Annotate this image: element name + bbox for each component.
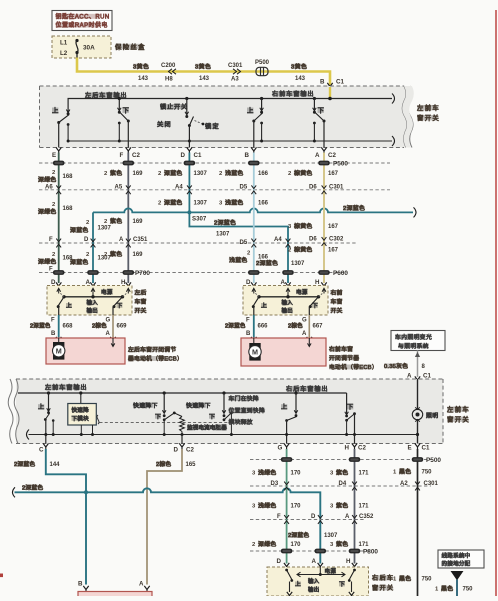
svg-text:E: E <box>408 445 412 452</box>
harness dashed row y519.5 <box>250 519 366 521</box>
svg-text:C2: C2 <box>358 445 366 452</box>
svg-text:器电动机（带ECB）: 器电动机（带ECB） <box>128 355 183 363</box>
svg-text:H: H <box>345 445 350 452</box>
svg-text:紫色: 紫色 <box>336 540 348 548</box>
pin D3 chevron <box>271 481 290 490</box>
svg-text:1307: 1307 <box>194 201 208 207</box>
svg-text:模块释放: 模块释放 <box>229 418 253 426</box>
pin F chevron at C351 row <box>49 237 61 247</box>
label express down #1 and DOWN switch <box>133 391 176 436</box>
pin D label into left-rear switch <box>51 279 61 289</box>
power rail and pin arrows inside right-front switch <box>252 288 326 299</box>
connector capsule on violet wire y163 <box>123 161 135 166</box>
svg-text:电动机（带ECB）: 电动机（带ECB） <box>329 363 378 371</box>
svg-text:B: B <box>320 79 325 86</box>
svg-text:D: D <box>311 514 316 520</box>
svg-text:下: 下 <box>347 404 355 411</box>
svg-text:P500: P500 <box>426 457 441 464</box>
svg-text:黑色: 黑色 <box>399 468 411 476</box>
left front motor box (pink, cut off) <box>78 592 152 600</box>
svg-text:车窗: 车窗 <box>331 298 343 306</box>
left front window master switch (upper block, dashed, torn right edge) <box>40 86 414 148</box>
label: left rear window output <box>85 93 120 98</box>
svg-text:关闭: 关闭 <box>157 121 172 129</box>
return bus inside master switch <box>68 136 394 146</box>
connector capsule on green wire y272.5 <box>53 270 65 275</box>
svg-text:A6: A6 <box>45 185 53 191</box>
svg-text:D: D <box>51 279 56 286</box>
red page edge line right <box>495 10 497 596</box>
svg-text:30A: 30A <box>83 45 95 52</box>
svg-text:棕黄色: 棕黄色 <box>294 169 313 177</box>
connector capsule on teal x93 y272.5 <box>87 270 99 275</box>
svg-text:169: 169 <box>133 171 144 177</box>
power bus inside lower block <box>18 392 347 394</box>
connector capsule on teal y551 <box>315 549 327 554</box>
svg-text:C301: C301 <box>424 481 439 487</box>
label left rear window regulator motor ECB <box>128 346 183 363</box>
connector capsule on light blue y272.5 <box>248 270 260 275</box>
ground distribution box <box>438 550 484 568</box>
svg-text:黑色: 黑色 <box>399 575 411 583</box>
svg-text:167: 167 <box>328 248 339 254</box>
svg-text:深绿色: 深绿色 <box>38 176 57 184</box>
svg-text:下: 下 <box>123 107 131 115</box>
label 2 dark-blue 1307 bottom <box>288 531 338 539</box>
pin A into right-rear switch <box>312 558 324 569</box>
svg-text:右后车: 右后车 <box>372 574 394 582</box>
svg-text:169: 169 <box>133 252 144 258</box>
connector capsule on green y551 <box>281 549 293 554</box>
lock switch with labels <box>157 97 220 148</box>
svg-text:左前车: 左前车 <box>417 103 440 112</box>
internal return line y434.5 with left break <box>27 430 418 440</box>
pin D5 chevron at C302 row <box>240 239 257 248</box>
svg-text:锁止开关: 锁止开关 <box>160 103 188 111</box>
pin H label into right-front switch <box>315 279 327 289</box>
switch UP (right front) with label <box>247 97 263 148</box>
svg-text:170: 170 <box>291 504 302 510</box>
svg-text:位置直到快降: 位置直到快降 <box>229 406 266 414</box>
svg-text:左后: 左后 <box>135 289 147 297</box>
label: left front window output <box>45 385 80 390</box>
switch UP (right rear) to pin G <box>281 391 298 443</box>
label: left front window switch (right of upper block) <box>417 103 440 122</box>
pin F and wire 2 dark-blue 668 to motor <box>30 315 73 343</box>
svg-text:紫色: 紫色 <box>336 502 348 510</box>
svg-text:下: 下 <box>339 581 346 588</box>
svg-text:D5: D5 <box>240 240 248 246</box>
svg-text:下: 下 <box>209 413 216 420</box>
svg-text:P600: P600 <box>333 270 348 277</box>
svg-text:750: 750 <box>463 587 474 593</box>
pin A2 chevron at C301 <box>400 481 439 490</box>
svg-text:A4: A4 <box>175 185 183 191</box>
label right rear window switch <box>372 574 394 592</box>
svg-text:D: D <box>277 558 282 565</box>
svg-text:A5: A5 <box>115 185 123 191</box>
pin H into right-rear switch <box>346 558 357 569</box>
label 3 violet 171 (mid) <box>330 502 369 510</box>
label right front window switch (3 lines) <box>331 289 343 315</box>
connector capsule P800 y551 <box>349 549 361 554</box>
pin D6 chevron at C302 <box>309 237 344 246</box>
svg-text:168: 168 <box>63 174 74 180</box>
svg-text:左后车窗开闭调节: 左后车窗开闭调节 <box>128 346 176 354</box>
wire: brown-yellow 167 (pin A C2 down to P600) <box>323 153 325 284</box>
pin D chevron on teal x93 <box>84 237 95 247</box>
svg-text:170: 170 <box>291 542 302 548</box>
label 2 brown-yellow 167 (lower) <box>288 246 339 254</box>
svg-text:666: 666 <box>258 324 269 330</box>
label 2 dark-blue 1307 (second) <box>158 199 208 207</box>
svg-text:A: A <box>106 331 111 337</box>
up/down contacts inside left-rear switch <box>57 297 124 315</box>
svg-text:A3: A3 <box>231 76 239 82</box>
label left rear window switch (3 lines) <box>135 289 147 315</box>
svg-text:168: 168 <box>63 206 74 212</box>
fuse box (dashed) with fuse L1/L2 30A <box>52 36 111 58</box>
svg-text:C301: C301 <box>228 63 243 69</box>
svg-text:S307: S307 <box>192 216 207 223</box>
svg-text:668: 668 <box>63 324 74 330</box>
svg-text:3黄色: 3黄色 <box>291 62 307 70</box>
svg-text:紫色: 紫色 <box>110 169 122 177</box>
connector capsule on green wire y163 <box>53 161 65 166</box>
svg-text:669: 669 <box>117 324 128 330</box>
svg-text:紫色: 紫色 <box>110 217 122 225</box>
svg-text:快速降下: 快速降下 <box>133 401 158 409</box>
svg-text:143: 143 <box>138 76 149 82</box>
wire label 3 yellow 143 (left) <box>133 62 149 82</box>
label 1 black 750 (lower) <box>393 575 432 583</box>
svg-text:B: B <box>78 581 83 588</box>
svg-text:深绿色: 深绿色 <box>38 208 57 216</box>
yellow feed junction on bus <box>328 87 332 100</box>
wire: light green 170 pin G down to right-rear switch <box>286 449 288 564</box>
svg-text:D6: D6 <box>309 237 317 243</box>
svg-text:A4: A4 <box>274 237 282 243</box>
pin A C1 into lower master switch block <box>407 373 431 383</box>
svg-text:监视电流电阻器: 监视电流电阻器 <box>187 423 227 431</box>
pin C <box>39 443 49 453</box>
express-down module box <box>68 391 99 436</box>
pin D C2 (express down) <box>174 443 195 453</box>
pin D chevron on teal x320.3 <box>311 514 323 524</box>
up/down contacts inside right-front switch <box>252 297 319 315</box>
svg-text:A: A <box>345 514 350 520</box>
svg-text:1307: 1307 <box>216 232 230 238</box>
pin A chevron at connector C352 <box>345 514 374 524</box>
pin B of left front motor <box>78 581 89 593</box>
pin D5 chevron <box>240 185 257 195</box>
svg-text:电源: 电源 <box>325 567 337 575</box>
svg-text:F: F <box>246 318 250 324</box>
up/down contacts inside right-rear switch <box>285 569 356 599</box>
svg-text:D: D <box>246 279 251 286</box>
svg-text:紫色: 紫色 <box>336 469 348 477</box>
wire: yellow feed from fuse to switch (3 YE 143) <box>77 53 330 88</box>
label 2 brown-yellow 167 (upper) <box>288 169 339 177</box>
svg-text:深蓝色: 深蓝色 <box>164 199 183 207</box>
pin G <box>278 443 290 451</box>
label 2 dark-blue 1307 on lower branch <box>214 218 236 237</box>
svg-text:0.35灰色: 0.35灰色 <box>384 362 408 370</box>
svg-text:1307: 1307 <box>291 261 305 267</box>
svg-text:右后车窗输出: 右后车窗输出 <box>286 385 329 393</box>
wire: dark green 168 (pin E to left-rear switch pin D) <box>58 153 60 284</box>
svg-text:钥匙在ACC、RUN: 钥匙在ACC、RUN <box>56 13 110 21</box>
svg-text:浅蓝色: 浅蓝色 <box>229 256 248 264</box>
wire: violet 169 (pin F C2 down to P700) <box>127 153 129 284</box>
svg-text:143: 143 <box>295 76 306 82</box>
svg-text:L2: L2 <box>60 50 68 57</box>
svg-text:L1: L1 <box>60 40 68 47</box>
left rear window motor box (pink) <box>46 338 125 364</box>
right front window switch box (dashed cream) <box>243 286 328 316</box>
wire 0.35 gray 8 from lighting box <box>384 351 426 378</box>
svg-text:B: B <box>51 331 56 337</box>
label right front window regulator motor ECB <box>329 345 378 371</box>
svg-text:与照明系统: 与照明系统 <box>398 342 429 350</box>
svg-text:C352: C352 <box>359 514 374 520</box>
label 2 dark-green 168 (lower) <box>38 252 73 266</box>
svg-text:F: F <box>49 237 53 243</box>
svg-text:171: 171 <box>359 504 370 510</box>
left rear window switch box (dashed cream) <box>47 286 132 316</box>
connector capsule P500 y163 <box>318 161 330 166</box>
svg-text:输入: 输入 <box>308 577 320 585</box>
svg-text:F: F <box>51 318 55 324</box>
svg-text:输入: 输入 <box>282 299 294 307</box>
label 2 light-blue 166 (lower) <box>229 251 269 265</box>
pin D C1 <box>181 147 202 159</box>
pin E C1 (illumination) <box>408 443 430 451</box>
pin F chevron at C352 row <box>277 514 289 524</box>
svg-text:H: H <box>346 558 351 565</box>
svg-text:上: 上 <box>295 580 302 588</box>
label 3 light-green 170 (upper) <box>252 469 301 477</box>
svg-text:下模块: 下模块 <box>72 415 90 423</box>
svg-text:D4: D4 <box>339 481 347 487</box>
pin A C2 <box>315 147 336 159</box>
svg-text:167: 167 <box>328 224 339 230</box>
svg-text:2深蓝色: 2深蓝色 <box>288 531 309 539</box>
switch UP (left front) to pin C <box>38 391 55 443</box>
svg-text:深蓝色: 深蓝色 <box>70 226 89 234</box>
pin A of left front motor <box>139 581 150 593</box>
red page edge mark bottom-left <box>0 574 3 578</box>
svg-text:750: 750 <box>422 577 433 583</box>
svg-text:棕黄色: 棕黄色 <box>294 246 313 254</box>
label 2 dark-green 168 (upper) <box>38 170 73 184</box>
svg-text:171: 171 <box>359 471 370 477</box>
wire: dark blue 1307 branch down at x93 <box>92 212 94 283</box>
svg-text:照明: 照明 <box>426 413 438 420</box>
label 2 dark-green 170 (lower) <box>252 540 301 548</box>
pin D6 chevron at C301 <box>309 185 344 195</box>
monitor current resistor <box>174 413 227 444</box>
label 3 light-blue 166 (second) <box>219 199 269 207</box>
svg-text:C1: C1 <box>422 445 430 452</box>
switch DOWN (left rear) with label <box>118 97 131 148</box>
svg-text:右前车窗: 右前车窗 <box>329 345 353 353</box>
wire: dark blue lower branch S307 to x288 <box>189 212 288 283</box>
pin E <box>52 147 61 159</box>
harness dashed row y486 <box>250 485 431 487</box>
wire: dark blue trunk horizontal y212.4 with S307 <box>93 207 416 217</box>
svg-text:G: G <box>278 445 283 452</box>
svg-text:A: A <box>139 581 144 588</box>
svg-text:2深蓝色: 2深蓝色 <box>225 322 246 330</box>
pin A4 chevron <box>175 185 192 195</box>
svg-text:D3: D3 <box>271 481 279 487</box>
svg-text:上: 上 <box>247 106 255 115</box>
svg-text:3黄色: 3黄色 <box>195 62 211 70</box>
svg-text:A2: A2 <box>400 481 408 487</box>
pin D into right-rear switch <box>277 558 290 569</box>
note box: key in ACC/RUN or RAP power <box>52 11 112 31</box>
label 3 violet 171 (lower) <box>330 540 369 548</box>
svg-text:C351: C351 <box>133 237 148 243</box>
svg-text:A: A <box>407 373 412 380</box>
label 2 dark-green 168 (mid) <box>38 202 73 216</box>
svg-text:A: A <box>315 152 320 159</box>
svg-text:左前车: 左前车 <box>447 405 470 414</box>
ground feed triangle and wire 1 black 750 <box>435 572 473 597</box>
label express down #2 and DOWN switch <box>186 391 233 436</box>
pin F and wire 2 dark-blue 666 to motor <box>225 315 268 343</box>
pin B <box>245 147 257 159</box>
label 2 dark-blue 1307 near P600 row <box>256 259 305 267</box>
power rail and entry arrows inside right-rear switch <box>297 567 345 577</box>
junction S307 <box>187 210 206 222</box>
svg-text:快速降: 快速降 <box>72 406 90 414</box>
svg-text:输出: 输出 <box>308 586 319 594</box>
svg-text:3黄色: 3黄色 <box>133 62 149 70</box>
svg-text:C301: C301 <box>329 185 344 191</box>
svg-text:M: M <box>56 347 62 356</box>
pin A label into left-rear switch <box>86 279 96 289</box>
pin G and wire 2 brown 669 to motor <box>92 315 127 343</box>
svg-text:F: F <box>120 152 124 159</box>
interior lighting dimming system box <box>391 331 445 351</box>
svg-text:窗开关: 窗开关 <box>417 113 440 122</box>
svg-text:右前车窗输出: 右前车窗输出 <box>272 90 315 98</box>
svg-text:D: D <box>174 447 179 454</box>
svg-text:165: 165 <box>186 462 197 468</box>
switch DOWN (right front) with label <box>313 97 326 148</box>
connector C301 A3 marks <box>228 63 243 82</box>
label 2 violet 169 (second) <box>104 217 143 225</box>
svg-text:D: D <box>181 152 186 159</box>
svg-text:上: 上 <box>38 403 46 411</box>
svg-text:下: 下 <box>117 303 124 310</box>
svg-text:F: F <box>49 267 53 273</box>
svg-text:输出: 输出 <box>87 307 98 315</box>
svg-text:C2: C2 <box>132 152 140 159</box>
pin A5 chevron <box>115 185 131 195</box>
harness dashed row y272.5 <box>39 272 347 274</box>
illumination lamp in switch <box>412 379 438 444</box>
svg-text:2深蓝色: 2深蓝色 <box>30 322 51 330</box>
wire: dark blue trunk y492.3 to right rear switch <box>13 484 321 564</box>
wire: dark blue 144 pin C to left-front motor <box>14 449 86 585</box>
power bus inside master switch <box>68 94 394 113</box>
connector C200 H8 marks <box>161 63 176 82</box>
svg-text:D6: D6 <box>309 185 317 191</box>
connector capsule P500 on black y459.5 <box>412 457 424 462</box>
svg-text:电源: 电源 <box>101 288 113 296</box>
svg-text:浅绿色: 浅绿色 <box>258 502 277 510</box>
svg-text:166: 166 <box>258 201 269 207</box>
svg-text:黑色: 黑色 <box>441 585 453 593</box>
pin A label into right-front switch <box>281 279 291 289</box>
svg-text:750: 750 <box>422 470 433 476</box>
svg-text:A: A <box>281 279 286 286</box>
svg-text:输出: 输出 <box>282 307 293 315</box>
label 2 light-blue 166 (upper) <box>219 169 269 177</box>
connector capsule on light blue y163 <box>248 161 260 166</box>
pin G and wire 2 brown 667 to motor <box>288 315 323 343</box>
pin B C1 into master switch <box>320 79 344 90</box>
svg-text:窗开关: 窗开关 <box>372 584 394 592</box>
svg-text:D: D <box>84 237 89 243</box>
label 1 black 750 (upper) <box>393 468 432 476</box>
svg-text:P500: P500 <box>255 60 270 66</box>
svg-text:深绿色: 深绿色 <box>38 258 57 266</box>
svg-text:输入: 输入 <box>87 299 99 307</box>
svg-text:窗开关: 窗开关 <box>447 415 470 424</box>
pin A4 chevron on x288 branch <box>274 237 290 247</box>
svg-text:车内照明变光: 车内照明变光 <box>395 333 432 341</box>
svg-text:电源: 电源 <box>296 288 308 296</box>
svg-text:C302: C302 <box>329 237 344 243</box>
svg-text:浅蓝色: 浅蓝色 <box>225 169 244 177</box>
label 2 dark-blue on trunk <box>343 205 362 210</box>
svg-text:M: M <box>252 348 258 357</box>
svg-text:浅蓝色: 浅蓝色 <box>225 199 244 207</box>
wire: light blue 166 (pin B down) <box>253 153 255 284</box>
svg-text:深蓝色: 深蓝色 <box>164 169 183 177</box>
svg-text:C200: C200 <box>161 63 176 69</box>
svg-text:1307: 1307 <box>98 226 112 232</box>
wire: black 750 ground from pin E C1 <box>417 449 419 596</box>
svg-text:位置或RAP时供电: 位置或RAP时供电 <box>56 21 108 29</box>
right front window motor box (pink) <box>241 338 326 366</box>
label: right rear window output <box>286 386 321 391</box>
wire: dark blue 1307 (pin D C1 down to S307) <box>188 153 190 213</box>
harness dashed row y243 <box>39 242 356 244</box>
svg-text:B: B <box>246 331 251 337</box>
label 2 dark-blue 1307 <box>70 220 112 234</box>
harness dashed row y189.8 <box>39 189 390 191</box>
svg-text:A: A <box>312 558 317 565</box>
pin A6 chevron <box>45 185 61 195</box>
svg-text:车窗: 车窗 <box>135 298 147 306</box>
connector capsule on x288 teal y272.5 <box>282 270 294 275</box>
svg-text:143: 143 <box>199 76 210 82</box>
power rail and pin arrows inside left-rear switch <box>57 288 130 299</box>
connector capsule on teal wire y163 <box>184 161 196 166</box>
right rear window switch box (dashed cream, cut off) <box>267 567 369 596</box>
svg-text:1307: 1307 <box>324 533 338 539</box>
connector capsule on violet y459.5 <box>349 457 361 462</box>
svg-text:上: 上 <box>281 403 289 411</box>
label: left front window switch (right of lower block) <box>447 405 470 424</box>
svg-text:棕黄色: 棕黄色 <box>294 222 313 230</box>
label 2 dark-blue 1307 (lower) <box>70 252 112 266</box>
